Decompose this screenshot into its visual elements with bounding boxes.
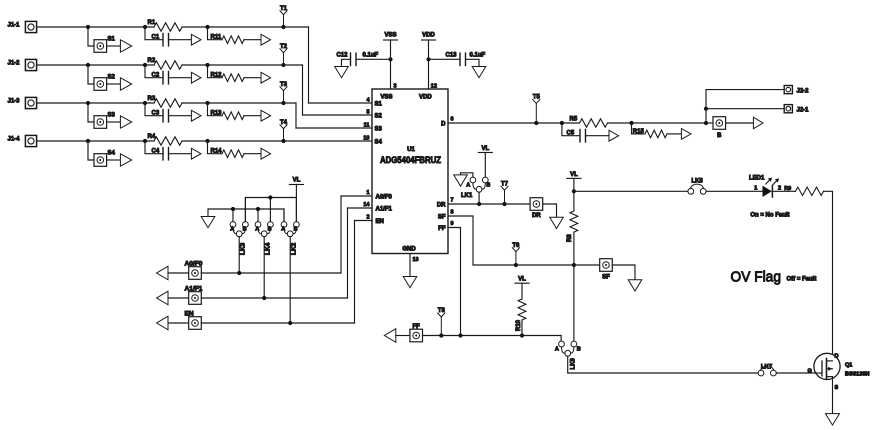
svg-text:LK3: LK3 bbox=[239, 242, 246, 255]
junction R13 bbox=[205, 101, 209, 105]
jumper LK8 bbox=[688, 184, 706, 194]
net arrow R13 bbox=[261, 110, 271, 121]
test pin T3 bbox=[281, 101, 285, 105]
junction LK3 on row bbox=[237, 271, 241, 275]
net arrow R12 bbox=[261, 72, 271, 83]
junction VDD/C13 bbox=[426, 57, 430, 61]
svg-text:12: 12 bbox=[431, 84, 437, 90]
test point EN bbox=[189, 317, 202, 330]
wire J1-3 source net S3 bbox=[37, 102, 154, 104]
wire LK4 common bbox=[263, 237, 265, 298]
wire LK8 to LED1 bbox=[706, 190, 762, 192]
supply VL LK1 bbox=[478, 152, 492, 154]
junction R4/C4 bbox=[143, 139, 147, 143]
svg-text:VDD: VDD bbox=[422, 33, 435, 39]
svg-text:Off = Fault: Off = Fault bbox=[787, 276, 817, 282]
svg-text:R12: R12 bbox=[211, 73, 223, 79]
junction VL rail bbox=[572, 189, 576, 193]
svg-text:J1-3: J1-3 bbox=[8, 99, 21, 105]
net arrow B bbox=[753, 117, 763, 128]
wire LK1 common to DR bbox=[478, 192, 480, 204]
wire LK4 B to VL rail bbox=[269, 198, 271, 222]
svg-text:J1-4: J1-4 bbox=[8, 137, 21, 143]
net arrow R15 bbox=[681, 129, 691, 140]
svg-text:LK4: LK4 bbox=[264, 242, 271, 255]
svg-text:LK2: LK2 bbox=[290, 242, 297, 255]
svg-text:9: 9 bbox=[451, 221, 454, 227]
net arrow EN bbox=[157, 316, 168, 330]
svg-text:B: B bbox=[294, 227, 298, 233]
wire VSS to pin 3 bbox=[390, 40, 392, 89]
wire arrow to test point A1/F1 bbox=[168, 297, 189, 299]
net arrow A1/F1 bbox=[157, 291, 168, 305]
test pin T5 bbox=[534, 121, 538, 125]
pin numbers S1-S4 bbox=[363, 98, 370, 142]
wire C13 to ground bbox=[466, 59, 480, 66]
svg-text:R9: R9 bbox=[784, 186, 791, 192]
svg-text:6: 6 bbox=[451, 117, 454, 123]
svg-text:G: G bbox=[808, 368, 812, 374]
svg-text:R8: R8 bbox=[567, 234, 573, 242]
svg-text:A: A bbox=[230, 227, 234, 233]
svg-text:LK1: LK1 bbox=[461, 193, 473, 199]
svg-text:C3: C3 bbox=[152, 111, 160, 117]
svg-text:GND: GND bbox=[402, 247, 416, 253]
junction B test point bbox=[704, 121, 708, 125]
test point S4 bbox=[94, 154, 107, 167]
wire arrow to test point FF bbox=[396, 335, 410, 337]
jumper LK3 bbox=[230, 222, 248, 237]
wire S3 test point to arrow bbox=[107, 121, 121, 123]
wire B to arrow bbox=[726, 122, 754, 124]
wire to test point S1 bbox=[88, 27, 94, 46]
wire C3 to arrow bbox=[169, 115, 192, 117]
svg-text:VL: VL bbox=[293, 178, 301, 184]
svg-text:S4: S4 bbox=[108, 151, 116, 157]
wire DR net bbox=[448, 203, 530, 205]
wire LED1 to R9 bbox=[772, 190, 795, 192]
ground C13 bbox=[472, 67, 486, 78]
wire R9 to Q1 drain bbox=[824, 191, 833, 361]
wire VL to LK1 B bbox=[484, 153, 486, 178]
svg-text:C1: C1 bbox=[152, 35, 160, 41]
svg-text:T8: T8 bbox=[438, 308, 446, 314]
wire pin 1 A0/F0 bbox=[341, 195, 372, 197]
ground SF bbox=[628, 280, 642, 291]
transistor Q1 BSS138N bbox=[814, 353, 840, 379]
resistor R8 bbox=[570, 211, 578, 232]
svg-text:SF: SF bbox=[438, 214, 446, 220]
wire pin 14 A1/F1 bbox=[348, 207, 373, 209]
wire VDD to pin 12 bbox=[428, 40, 430, 89]
wire LK4 A to ground rail bbox=[257, 209, 259, 222]
svg-text:S2: S2 bbox=[108, 75, 116, 81]
wire to resistor R12 bbox=[208, 65, 223, 78]
test pin T4 bbox=[281, 139, 285, 143]
junction R12 bbox=[205, 63, 209, 67]
wire to resistor R13 bbox=[208, 103, 223, 116]
wire to test point S4 bbox=[88, 141, 94, 160]
supply VSS bbox=[384, 39, 398, 41]
svg-text:T2: T2 bbox=[280, 44, 288, 50]
svg-text:A: A bbox=[555, 346, 559, 352]
wire R13 to arrow bbox=[244, 115, 261, 117]
ground LK1 bbox=[454, 175, 468, 186]
wire J1-4 source net S4 bbox=[37, 140, 154, 142]
svg-text:A1/F1: A1/F1 bbox=[185, 286, 203, 293]
test point FF bbox=[410, 329, 423, 342]
wire to resistor R15 bbox=[632, 123, 646, 134]
svg-text:S4: S4 bbox=[375, 140, 383, 146]
test point SF bbox=[600, 259, 613, 272]
wire arrow to test point A0/F0 bbox=[168, 272, 189, 274]
wire to capacitor C1 bbox=[145, 27, 163, 40]
net arrow C3 bbox=[191, 110, 201, 121]
wire C5 to arrow bbox=[586, 135, 610, 137]
svg-text:C2: C2 bbox=[152, 73, 160, 79]
U1 labels bbox=[375, 95, 447, 253]
junction ground rail LK3 bbox=[231, 207, 235, 211]
svg-text:EN: EN bbox=[376, 219, 384, 225]
junction VL rail LK4 bbox=[268, 195, 272, 199]
wire arrow to test point EN bbox=[168, 322, 189, 324]
svg-text:T1: T1 bbox=[280, 6, 288, 12]
svg-text:R10: R10 bbox=[516, 319, 522, 331]
test pin T6 bbox=[514, 263, 518, 267]
svg-text:OV Flag: OV Flag bbox=[731, 268, 782, 285]
wire R15 to arrow bbox=[667, 133, 681, 135]
jumper LK7 bbox=[758, 366, 776, 376]
ground pin 13 bbox=[403, 277, 417, 288]
svg-text:C13: C13 bbox=[446, 53, 458, 59]
jumper LK9 bbox=[559, 341, 577, 356]
svg-text:VSS: VSS bbox=[381, 95, 393, 101]
svg-text:A: A bbox=[255, 227, 259, 233]
junction R11 bbox=[205, 25, 209, 29]
test point B bbox=[713, 117, 726, 130]
test pin T2 bbox=[281, 63, 285, 67]
svg-text:10: 10 bbox=[363, 136, 369, 142]
svg-text:R14: R14 bbox=[211, 149, 223, 155]
svg-text:1: 1 bbox=[366, 190, 369, 196]
svg-text:0.1uF: 0.1uF bbox=[363, 53, 379, 59]
junction LK4 on row bbox=[262, 296, 266, 300]
svg-text:U1: U1 bbox=[407, 147, 415, 153]
ground C12 bbox=[335, 67, 349, 78]
test pin T1 bbox=[281, 25, 285, 29]
test point DR bbox=[530, 198, 543, 211]
wire S4 test point to arrow bbox=[107, 159, 121, 161]
wire to test point B bbox=[706, 122, 713, 124]
svg-text:11: 11 bbox=[364, 123, 370, 129]
connector J2-1 bbox=[784, 105, 792, 113]
wire DR to ground bbox=[543, 204, 557, 217]
svg-text:SF: SF bbox=[602, 274, 610, 280]
svg-text:J2-2: J2-2 bbox=[797, 88, 810, 94]
wire C2 to arrow bbox=[169, 77, 192, 79]
net arrow C1 bbox=[191, 34, 201, 45]
svg-text:On = No Fault: On = No Fault bbox=[750, 213, 789, 219]
svg-text:R15: R15 bbox=[633, 129, 645, 135]
wire R8 to LK9 B bbox=[573, 265, 575, 341]
svg-text:C5: C5 bbox=[567, 131, 575, 137]
wire to capacitor C13 bbox=[429, 58, 461, 60]
svg-text:J2-1: J2-1 bbox=[797, 107, 810, 113]
wire FF net bbox=[423, 335, 562, 337]
svg-text:13: 13 bbox=[413, 257, 419, 263]
wire to capacitor C2 bbox=[145, 65, 163, 78]
wire R14 to arrow bbox=[244, 153, 261, 155]
wire to capacitor C5 bbox=[562, 123, 580, 136]
junction ground rail LK4 bbox=[256, 207, 260, 211]
svg-text:J1-1: J1-1 bbox=[8, 23, 21, 29]
svg-text:D: D bbox=[835, 354, 839, 360]
wire to resistor R11 bbox=[208, 27, 223, 40]
svg-text:VL: VL bbox=[518, 276, 526, 282]
supply VDD bbox=[422, 39, 436, 41]
net arrow C4 bbox=[191, 148, 201, 159]
junction SF/R8 bbox=[572, 263, 576, 267]
svg-text:A0/F0: A0/F0 bbox=[185, 261, 203, 268]
svg-text:T6: T6 bbox=[512, 243, 520, 249]
junction J2-1 bbox=[704, 107, 708, 111]
wire A1/F1 to pin 14 bbox=[201, 297, 347, 299]
svg-text:A0/F0: A0/F0 bbox=[376, 195, 393, 201]
wire to capacitor C3 bbox=[145, 103, 163, 116]
connector J2-2 bbox=[784, 86, 792, 94]
svg-text:C12: C12 bbox=[337, 53, 349, 59]
svg-text:S1: S1 bbox=[375, 102, 383, 108]
wire EN to pin 2 bbox=[201, 322, 354, 324]
wire VL rail bbox=[295, 185, 297, 198]
svg-text:3: 3 bbox=[394, 84, 397, 90]
svg-text:S1: S1 bbox=[108, 37, 116, 43]
junction FF vertical bbox=[458, 333, 462, 337]
test pin T8 bbox=[439, 333, 443, 337]
test point S2 bbox=[94, 78, 107, 91]
svg-text:R13: R13 bbox=[211, 111, 223, 117]
junction LK2 on row bbox=[288, 321, 292, 325]
wire pin 13 GND bbox=[409, 254, 411, 277]
svg-text:J1-2: J1-2 bbox=[8, 61, 21, 67]
svg-text:A: A bbox=[466, 183, 470, 189]
net arrow FF bbox=[384, 329, 395, 343]
wire to capacitor C4 bbox=[145, 141, 163, 154]
wire R11 to arrow bbox=[244, 39, 261, 41]
svg-text:S2: S2 bbox=[375, 114, 383, 120]
svg-text:8: 8 bbox=[451, 210, 454, 216]
wire SF to ground bbox=[612, 265, 635, 280]
svg-text:FF: FF bbox=[438, 226, 446, 232]
svg-text:S3: S3 bbox=[375, 127, 383, 133]
junction R14 bbox=[205, 139, 209, 143]
wire LK2 common bbox=[289, 237, 291, 323]
wire to resistor R14 bbox=[208, 141, 223, 154]
net arrow S4 bbox=[120, 154, 131, 166]
wire to test point S2 bbox=[88, 65, 94, 84]
junction R10 bbox=[520, 333, 524, 337]
svg-text:LED1: LED1 bbox=[749, 175, 765, 181]
wire R5 to junction bbox=[608, 122, 707, 124]
svg-text:VL: VL bbox=[481, 146, 489, 152]
wire LK9 common to gate bbox=[568, 356, 758, 373]
svg-text:VSS: VSS bbox=[384, 33, 396, 39]
svg-text:VDD: VDD bbox=[419, 95, 432, 101]
svg-text:B: B bbox=[268, 227, 272, 233]
svg-text:T7: T7 bbox=[501, 181, 509, 187]
jumper LK1 bbox=[470, 177, 488, 192]
svg-text:BSS138N: BSS138N bbox=[845, 372, 869, 378]
svg-text:A1/F1: A1/F1 bbox=[376, 207, 393, 213]
svg-text:R5: R5 bbox=[570, 117, 578, 123]
svg-text:0.1uF: 0.1uF bbox=[470, 53, 486, 59]
wire C12 to ground bbox=[342, 59, 351, 66]
net arrow C5 bbox=[609, 130, 619, 141]
wire S2 test point to arrow bbox=[107, 83, 121, 85]
svg-text:1: 1 bbox=[754, 186, 757, 192]
wire A0/F0 to pin 1 bbox=[201, 272, 341, 274]
svg-text:R11: R11 bbox=[211, 35, 222, 41]
svg-text:LK7: LK7 bbox=[761, 365, 773, 371]
test pin T7 bbox=[502, 202, 506, 206]
svg-text:VL: VL bbox=[570, 172, 578, 178]
wire LK3 common bbox=[238, 237, 240, 273]
junction R15 bbox=[629, 121, 633, 125]
svg-text:T5: T5 bbox=[533, 95, 541, 101]
svg-text:T4: T4 bbox=[280, 120, 288, 126]
svg-text:B: B bbox=[577, 346, 581, 352]
net arrow R11 bbox=[261, 34, 271, 45]
svg-text:S3: S3 bbox=[108, 113, 116, 119]
test point A1/F1 bbox=[189, 292, 202, 305]
svg-text:DR: DR bbox=[532, 213, 541, 219]
ground Q1 bbox=[826, 414, 840, 426]
svg-text:S: S bbox=[835, 385, 839, 391]
wire LK2 B to VL rail bbox=[295, 198, 297, 222]
svg-text:D: D bbox=[441, 122, 446, 128]
svg-text:ADG5404FBRUZ: ADG5404FBRUZ bbox=[380, 155, 441, 165]
net arrow A0/F0 bbox=[157, 266, 168, 280]
supply VL rail bbox=[567, 177, 581, 179]
svg-text:T3: T3 bbox=[280, 82, 288, 88]
junction VSS/C12 bbox=[388, 57, 392, 61]
svg-text:14: 14 bbox=[363, 202, 370, 208]
junction R1/C1 bbox=[143, 25, 147, 29]
wire LK3 B to VL rail bbox=[244, 198, 246, 222]
svg-text:2: 2 bbox=[366, 215, 369, 221]
ground jumper rail bbox=[208, 209, 284, 222]
svg-text:LK8: LK8 bbox=[691, 179, 703, 185]
svg-text:2: 2 bbox=[778, 186, 781, 192]
junction S2 branch bbox=[86, 63, 90, 67]
junction R3/C3 bbox=[143, 101, 147, 105]
jumper LK4 bbox=[255, 222, 273, 237]
junction S4 branch bbox=[86, 139, 90, 143]
supply VL R10 bbox=[515, 282, 529, 284]
test point A0/F0 bbox=[189, 267, 202, 280]
svg-text:DR: DR bbox=[437, 202, 446, 208]
net arrow S3 bbox=[120, 116, 131, 128]
junction S1 branch bbox=[86, 25, 90, 29]
svg-text:FF: FF bbox=[413, 324, 421, 330]
junction S3 branch bbox=[86, 101, 90, 105]
wire LK3 A to ground rail bbox=[232, 209, 234, 222]
wire pin 2 EN bbox=[355, 220, 373, 222]
net arrow S2 bbox=[120, 78, 131, 90]
supply VL jumper rail bbox=[289, 184, 303, 186]
svg-text:B: B bbox=[717, 133, 722, 139]
resistor R10 bbox=[521, 283, 523, 299]
svg-text:C4: C4 bbox=[152, 149, 160, 155]
wire LK7 to gate bbox=[776, 372, 815, 374]
net arrow S1 bbox=[120, 40, 131, 52]
wire LK2 A to ground rail bbox=[283, 209, 285, 222]
svg-text:EN: EN bbox=[185, 311, 194, 318]
net arrow R14 bbox=[261, 148, 271, 159]
wire FF to LK9 A bbox=[560, 336, 562, 342]
junction LK1 bbox=[477, 202, 481, 206]
wire to J2-1 bbox=[706, 108, 784, 110]
ground DR bbox=[550, 217, 564, 228]
wire VL rail to LED bbox=[574, 190, 688, 192]
svg-text:5: 5 bbox=[366, 110, 369, 116]
jumper LK2 bbox=[281, 222, 299, 237]
wire R12 to arrow bbox=[244, 77, 261, 79]
svg-text:LK9: LK9 bbox=[570, 358, 576, 370]
test point S1 bbox=[94, 40, 107, 53]
wire to test point S3 bbox=[88, 103, 94, 122]
wire S1 test point to arrow bbox=[107, 45, 121, 47]
junction C5/R5 bbox=[560, 121, 564, 125]
wire C1 to arrow bbox=[169, 39, 192, 41]
test point S3 bbox=[94, 116, 107, 129]
svg-text:7: 7 bbox=[451, 198, 454, 204]
junction R2/C2 bbox=[143, 63, 147, 67]
svg-text:A: A bbox=[281, 227, 285, 233]
wire J1-2 source net S2 bbox=[37, 64, 154, 66]
svg-text:B: B bbox=[486, 183, 490, 189]
svg-text:Q1: Q1 bbox=[845, 363, 852, 369]
svg-text:B: B bbox=[243, 227, 247, 233]
wire to J2 connectors bbox=[706, 90, 784, 123]
wire to capacitor C12 bbox=[356, 58, 391, 60]
wire J1-1 source net S1 bbox=[37, 26, 154, 28]
wire C4 to arrow bbox=[169, 153, 192, 155]
op-amp U1 ADG5404FBRUZ body bbox=[372, 89, 448, 254]
wire Q1 source to ground bbox=[832, 377, 834, 414]
ground LK rail bbox=[201, 217, 215, 228]
wire LK1 A to ground bbox=[461, 173, 473, 177]
net arrow C2 bbox=[191, 72, 201, 83]
